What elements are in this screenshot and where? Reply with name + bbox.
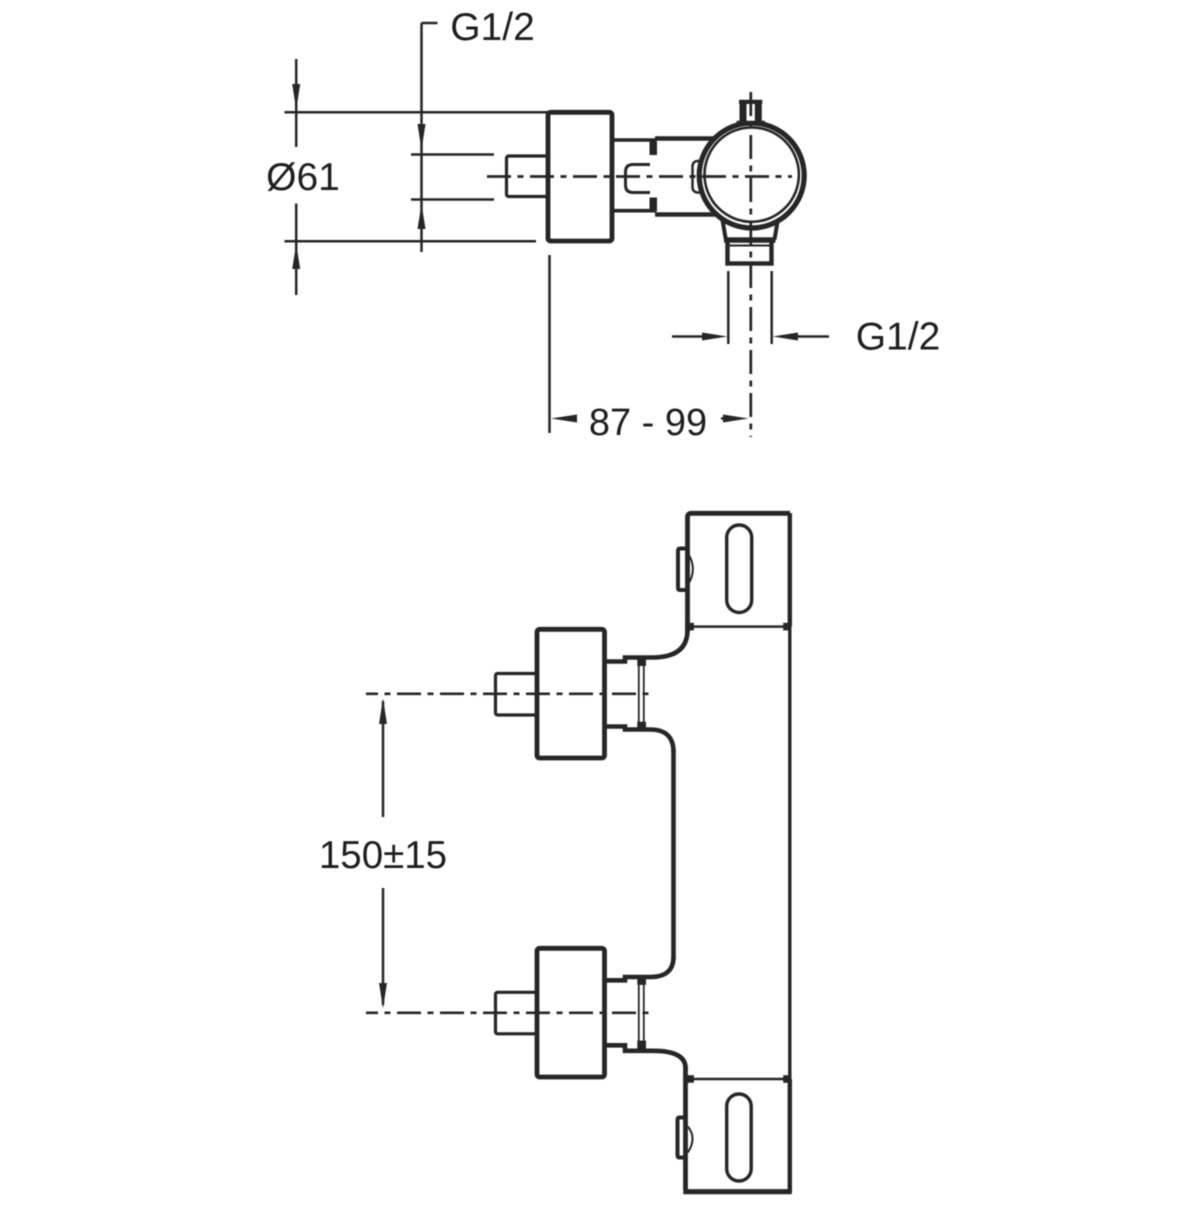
front view upper riser thin lines bbox=[639, 666, 644, 722]
front view bottom plate inlet arc bbox=[688, 1127, 693, 1153]
front view upper centerline bbox=[366, 692, 651, 695]
side view horizontal centerline bbox=[487, 175, 792, 178]
svg-text:G1/2: G1/2 bbox=[450, 6, 535, 49]
front view lower junction square top bbox=[637, 975, 646, 985]
dim G1/2 top leader vertical line bbox=[420, 23, 423, 252]
dim 150±15 line upper segment bbox=[382, 701, 385, 817]
side view outlet collar left edge bbox=[723, 220, 726, 240]
dim 87-99 left stub bbox=[572, 417, 576, 420]
svg-text:87 - 99: 87 - 99 bbox=[589, 402, 707, 444]
side view wall escutcheon bbox=[548, 112, 612, 241]
side view inlet shaft bbox=[507, 156, 549, 197]
front view bottom plate right edge thick overlay bbox=[788, 1079, 792, 1192]
side view outlet nut bbox=[728, 240, 772, 264]
front view upper neck top outline bbox=[605, 620, 688, 662]
dim 87-99 right stub bbox=[721, 417, 727, 420]
svg-text:Ø61: Ø61 bbox=[266, 156, 340, 199]
front view bottom plate slot bbox=[727, 1094, 752, 1181]
dim G1/2 top leader tick bbox=[422, 22, 438, 25]
front view bottom plate inlet tab bbox=[678, 1118, 688, 1158]
dim Ø61 arrow up bbox=[292, 244, 300, 269]
outlet thread extension line right bbox=[770, 271, 773, 344]
front view lower handle shaft bbox=[496, 992, 538, 1034]
front view top plate inlet tab bbox=[678, 549, 688, 591]
front view top plate bottom thin edge bbox=[690, 625, 787, 628]
front view right edge full height bbox=[788, 513, 791, 1192]
dim G1/2 top arrow down bbox=[418, 124, 426, 150]
dim Ø61 arrow down bbox=[292, 84, 300, 110]
front view lower junction square bottom bbox=[637, 1041, 646, 1051]
front view bottom plate bottom edge bbox=[683, 1189, 792, 1194]
dim Ø61 dimension line lower segment bbox=[295, 204, 298, 296]
front view bottom plate top thin edge bbox=[690, 1078, 787, 1081]
front view upper escutcheon bbox=[537, 629, 605, 758]
dim G1/2 bottom right line bbox=[796, 335, 829, 338]
front view top plate slot bbox=[727, 525, 752, 613]
dim G1/2 bottom right arrow bbox=[773, 333, 799, 341]
front view upper junction square bottom bbox=[637, 722, 646, 732]
inlet shaft extension line top bbox=[411, 153, 494, 156]
front view top plate right edge thick overlay bbox=[788, 513, 792, 626]
side view outlet collar right edge bbox=[775, 220, 778, 240]
dim 87-99 extension line bbox=[548, 255, 551, 433]
dim G1/2 bottom left line bbox=[672, 335, 705, 338]
front view bottom plate left edge bbox=[683, 1066, 688, 1190]
dim Ø61 extension line bottom bbox=[285, 240, 537, 243]
front view upper neck bottom outline bbox=[605, 727, 674, 753]
side view neck top line bbox=[612, 138, 656, 142]
side view cartridge body top edge bbox=[655, 136, 715, 140]
front view lower neck top outline bbox=[605, 957, 674, 980]
dim 150±15 arrow up bbox=[379, 699, 387, 725]
front view top plate bottom edge end dot left bbox=[686, 623, 694, 631]
side view dial circle inner bbox=[705, 127, 799, 221]
front view top plate left and top edges bbox=[688, 513, 791, 632]
outlet thread extension line left bbox=[727, 271, 730, 344]
side view dial circle outer bbox=[699, 123, 804, 228]
side view dial top button bbox=[737, 100, 765, 124]
front view top plate bottom edge end dot right bbox=[783, 623, 791, 631]
side view cartridge body bottom edge bbox=[655, 212, 715, 216]
side view body-neck junction square top bbox=[650, 141, 658, 155]
front view middle body left edge bbox=[671, 750, 676, 959]
side view junction cap bbox=[693, 161, 705, 193]
dim G1/2 bottom left arrow bbox=[702, 333, 728, 341]
svg-text:150±15: 150±15 bbox=[319, 834, 447, 877]
dim 150±15 arrow down bbox=[379, 983, 387, 1009]
side view outlet nut shoulder line bbox=[730, 245, 770, 247]
dim 150±15 line lower segment bbox=[382, 888, 385, 1005]
front view lower neck bottom outline bbox=[605, 1045, 686, 1068]
front view bottom plate top edge end dot left bbox=[686, 1075, 694, 1083]
front view lower riser thin lines bbox=[639, 985, 644, 1041]
inlet shaft extension line bottom bbox=[411, 198, 494, 201]
front view top plate inlet arc bbox=[688, 554, 693, 585]
side view body-neck junction square bottom bbox=[650, 198, 658, 212]
front view lower centerline bbox=[366, 1011, 651, 1014]
dim Ø61 extension line top bbox=[285, 111, 614, 114]
side view neck bottom line bbox=[612, 209, 656, 213]
dim 87-99 left arrow bbox=[551, 415, 577, 423]
front view lower escutcheon bbox=[537, 948, 605, 1077]
dim 87-99 right arrow bbox=[723, 415, 749, 423]
side view outlet nut top thick edge bbox=[724, 239, 776, 243]
dim Ø61 dimension line upper segment bbox=[295, 59, 298, 147]
front view upper handle shaft bbox=[496, 674, 538, 716]
front view bottom plate top edge end dot right bbox=[783, 1075, 791, 1083]
side view vertical centerline bbox=[749, 92, 752, 437]
dim G1/2 top arrow up bbox=[418, 204, 426, 229]
front view upper junction square top bbox=[637, 657, 646, 667]
side view stop knob bbox=[626, 165, 651, 193]
svg-text:G1/2: G1/2 bbox=[856, 316, 941, 359]
